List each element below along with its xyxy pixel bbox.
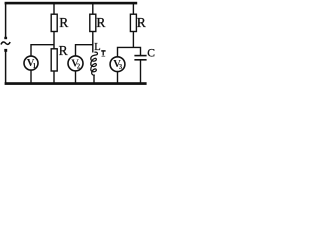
wire branch2 middle	[92, 32, 94, 53]
resistor R1 (top of branch 1)	[51, 14, 57, 31]
svg-text:R: R	[59, 43, 68, 58]
wire below V1	[30, 70, 32, 83]
bottom rail	[5, 82, 147, 85]
voltmeter V3	[110, 57, 125, 72]
wire bracket to V2	[76, 45, 93, 57]
svg-text:R: R	[137, 15, 146, 30]
wire below L	[93, 75, 95, 83]
AC source tilde	[1, 42, 10, 45]
resistor R3 (top of branch 2)	[90, 14, 96, 31]
wire left lower	[5, 52, 7, 83]
wire branch1 middle	[53, 32, 55, 49]
svg-text:R: R	[59, 15, 68, 30]
svg-text:C: C	[147, 47, 155, 59]
wire branch3 top	[132, 3, 134, 15]
wire bracket to V1	[31, 45, 54, 57]
wire branch3 middle	[132, 32, 134, 48]
wire bracket V3 to C	[118, 47, 141, 57]
wire below V3	[117, 72, 119, 83]
top rail	[5, 2, 138, 5]
capacitor C bottom plate	[134, 59, 146, 61]
svg-text:1: 1	[33, 63, 37, 70]
wire below C	[140, 61, 142, 83]
wire branch1 top	[53, 3, 55, 15]
capacitor C top plate	[134, 55, 146, 57]
resistor R2 (bottom of branch 1)	[51, 49, 57, 71]
voltmeter V1	[24, 56, 38, 70]
wire branch2 top	[92, 3, 94, 15]
svg-text:3: 3	[119, 64, 123, 71]
svg-text:2: 2	[77, 63, 81, 70]
AC source terminal lower	[4, 49, 7, 52]
svg-text:R: R	[96, 15, 105, 30]
voltmeter V2	[68, 56, 83, 71]
resistor R4 (top of branch 3)	[130, 14, 136, 31]
wire left upper	[5, 3, 7, 38]
wire below R2	[53, 71, 55, 83]
wire below V2	[75, 71, 77, 83]
AC source terminal upper	[4, 37, 7, 39]
current tap mark near L	[101, 50, 105, 52]
inductor L coil	[91, 52, 98, 75]
svg-text:L: L	[94, 42, 100, 53]
